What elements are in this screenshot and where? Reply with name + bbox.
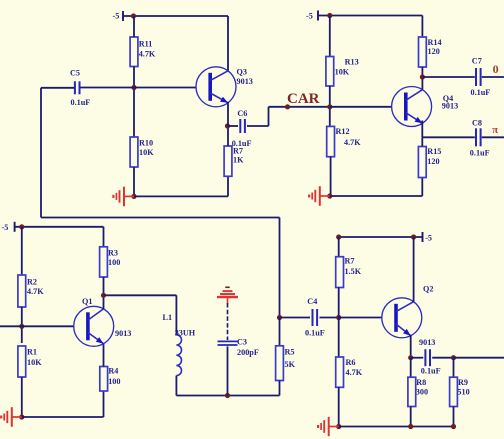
svg-text:Q2: Q2 bbox=[423, 285, 433, 294]
svg-text:10K: 10K bbox=[335, 68, 350, 77]
svg-text:300: 300 bbox=[416, 387, 428, 396]
svg-text:R7: R7 bbox=[345, 257, 355, 266]
svg-text:100: 100 bbox=[108, 258, 120, 267]
svg-text:C8: C8 bbox=[472, 119, 482, 128]
svg-text:-5: -5 bbox=[306, 12, 313, 21]
svg-text:R14: R14 bbox=[428, 38, 442, 47]
svg-text:5K: 5K bbox=[285, 360, 296, 369]
svg-text:4.7K: 4.7K bbox=[346, 368, 363, 377]
svg-text:0.1uF: 0.1uF bbox=[232, 139, 252, 148]
svg-text:R12: R12 bbox=[336, 127, 350, 136]
svg-text:R1: R1 bbox=[27, 347, 37, 356]
svg-text:R10: R10 bbox=[139, 138, 153, 147]
svg-text:1.5K: 1.5K bbox=[345, 267, 362, 276]
svg-text:π: π bbox=[492, 125, 498, 136]
svg-text:100: 100 bbox=[108, 377, 120, 386]
svg-text:0.1uF: 0.1uF bbox=[470, 149, 490, 158]
svg-text:CAR: CAR bbox=[287, 91, 320, 107]
svg-text:Q1: Q1 bbox=[82, 297, 92, 306]
svg-text:-5: -5 bbox=[425, 234, 432, 243]
svg-text:33UH: 33UH bbox=[175, 329, 196, 338]
svg-text:120: 120 bbox=[427, 157, 439, 166]
svg-text:9013: 9013 bbox=[115, 329, 131, 338]
svg-text:-5: -5 bbox=[113, 12, 120, 21]
svg-text:0.1uF: 0.1uF bbox=[471, 88, 491, 97]
svg-text:0.1uF: 0.1uF bbox=[71, 98, 91, 107]
svg-text:C6: C6 bbox=[237, 109, 247, 118]
svg-text:4.7K: 4.7K bbox=[344, 138, 361, 147]
svg-text:120: 120 bbox=[428, 47, 440, 56]
svg-text:Q3: Q3 bbox=[237, 68, 247, 77]
svg-text:C4: C4 bbox=[307, 297, 317, 306]
svg-text:4.7K: 4.7K bbox=[139, 50, 156, 59]
svg-text:10K: 10K bbox=[139, 148, 154, 157]
svg-text:-5: -5 bbox=[2, 223, 9, 232]
svg-text:R15: R15 bbox=[427, 147, 441, 156]
svg-text:0: 0 bbox=[493, 62, 499, 76]
svg-text:R9: R9 bbox=[458, 378, 468, 387]
svg-text:R4: R4 bbox=[108, 367, 118, 376]
svg-text:1K: 1K bbox=[233, 155, 244, 164]
svg-text:9013: 9013 bbox=[237, 77, 253, 86]
svg-text:R13: R13 bbox=[345, 58, 359, 67]
svg-text:10K: 10K bbox=[27, 358, 42, 367]
svg-text:0.1uF: 0.1uF bbox=[305, 328, 325, 337]
svg-text:R11: R11 bbox=[139, 39, 153, 48]
svg-text:C7: C7 bbox=[472, 57, 482, 66]
svg-text:0.1uF: 0.1uF bbox=[421, 367, 441, 376]
svg-text:C3: C3 bbox=[237, 338, 247, 347]
svg-text:C5: C5 bbox=[70, 69, 80, 78]
svg-text:R5: R5 bbox=[285, 348, 295, 357]
svg-text:9013: 9013 bbox=[442, 102, 458, 111]
svg-text:R3: R3 bbox=[108, 249, 118, 258]
svg-text:9013: 9013 bbox=[419, 338, 435, 347]
svg-text:R8: R8 bbox=[416, 378, 426, 387]
svg-text:L1: L1 bbox=[163, 313, 173, 322]
svg-text:200pF: 200pF bbox=[237, 348, 259, 357]
svg-text:R6: R6 bbox=[346, 358, 356, 367]
svg-text:R2: R2 bbox=[27, 277, 37, 286]
svg-text:510: 510 bbox=[457, 387, 469, 396]
svg-text:4.7K: 4.7K bbox=[27, 287, 44, 296]
